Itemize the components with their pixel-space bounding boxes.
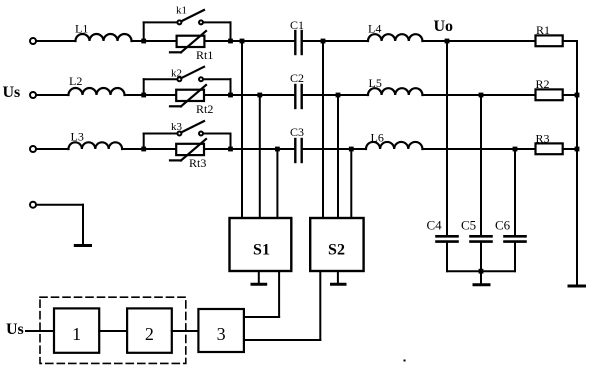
wire C1 to L4 [303,40,368,42]
terminal bar bottom bus [474,283,489,286]
terminal row4 [30,202,36,208]
wire row2 tap down to S2 [337,95,339,218]
wire row2 block to C2 [231,94,295,96]
wire C6 bottom [514,242,516,272]
svg-text:Rt3: Rt3 [189,156,206,170]
resistor R2 [536,77,563,100]
capacitor C1 [290,18,304,54]
node bottom bus [479,269,484,274]
svg-text:R2: R2 [536,77,550,91]
wire k3 branch left vertical [143,134,145,150]
svg-text:C5: C5 [461,218,476,233]
wire L3 to k3 block [122,148,144,150]
inductor L3 [69,130,123,150]
block 2 [127,308,172,352]
wire row3 tap down to C6 [514,149,516,236]
svg-text:Uo: Uo [434,18,454,35]
inductor L2 [69,74,125,95]
wire row1 tap down to S2 [322,41,324,218]
inductor L6 [366,131,422,150]
wire Us to box1 [26,330,54,332]
wire row1 main through Rt1 [144,40,231,42]
wire S1 output down [278,271,280,317]
node row2 block right [228,93,233,98]
wire C5 bottom [480,242,482,272]
node right bus row3 [575,147,580,152]
wire row2 tap down to C5 [480,95,482,236]
wire right bus vertical [576,41,578,286]
svg-text:L3: L3 [71,130,84,144]
wire row3 tap down to S1 [276,149,278,218]
switch k3 [171,121,204,136]
wire row3 block to C3 [231,148,295,150]
svg-text:L4: L4 [368,22,381,36]
wire k3 branch right vertical [230,134,232,150]
wire k1 branch right vertical [230,22,232,41]
node right bus row2 [575,93,580,98]
node row2 block left [141,93,146,98]
wire C3 to L6 [303,148,366,150]
svg-text:L6: L6 [371,131,384,145]
block S2 [310,218,363,271]
terminal bar S2 [332,283,346,286]
node row3 S2 tap [349,147,354,152]
wire L1 to k1 block [132,40,144,42]
node row2 S2 tap [336,93,341,98]
terminal row1 [30,38,36,44]
stray mark [404,360,406,362]
svg-text:C4: C4 [427,218,443,233]
thermistor Rt3 [170,139,206,170]
wire row3 terminal to L3 [36,148,69,150]
wire R3 to right bus [563,148,577,150]
svg-text:C2: C2 [290,71,304,85]
capacitor C5 [461,218,492,242]
wire L5 to R2 [423,94,536,96]
block S1 [230,218,292,271]
wire k2 branch left vertical [143,79,145,95]
svg-text:k1: k1 [176,5,187,17]
svg-text:C3: C3 [290,125,304,139]
node row1 block left [141,39,146,44]
wire capacitor bottom bus [447,270,515,272]
terminal bar S1 [252,283,266,286]
node row3 block left [141,147,146,152]
terminal row3 [30,146,36,152]
svg-text:Us: Us [6,321,24,338]
switch k1 [176,5,204,25]
wire k1 branch left vertical [143,22,145,41]
wire S2 ground stub [337,271,339,284]
svg-text:L5: L5 [369,76,382,90]
svg-text:Us: Us [3,84,21,101]
node row2 C5 tap [479,93,484,98]
block 1 [54,308,99,352]
resistor R1 [536,23,563,46]
node row1 S1 tap [240,39,245,44]
svg-text:L1: L1 [75,22,88,36]
wire row4 vertical [82,205,84,245]
wire row1 tap down to S1 [241,41,243,218]
wire C4 bottom [446,242,448,272]
wire row3 main through Rt3 [144,148,231,150]
wire k3 branch top right [203,133,231,135]
wire k2 branch top left [144,78,178,80]
node row1 S2 tap [321,39,326,44]
svg-text:S2: S2 [328,242,345,259]
svg-text:R3: R3 [536,132,550,146]
svg-text:L2: L2 [69,74,82,88]
wire row1 terminal to L1 [36,40,76,42]
wire S2 output down [319,271,321,340]
svg-text:C1: C1 [290,18,304,32]
svg-text:R1: R1 [536,23,550,37]
block 3 [198,309,244,352]
wire row2 terminal to L2 [36,94,69,96]
wire L2 to k2 block [125,94,144,96]
wire L4 to R1 [423,40,536,42]
node row3 C6 tap [513,147,518,152]
svg-text:k3: k3 [171,121,183,133]
wire L6 to R3 [423,148,536,150]
capacitor C2 [290,71,304,108]
capacitor C3 [290,125,304,162]
wire S1 ground stub [258,271,260,284]
capacitor C6 [495,218,526,242]
wire box2 to box3 [172,330,199,332]
wire C2 to L5 [303,94,368,96]
svg-text:2: 2 [145,324,154,344]
node row1 block right [228,39,233,44]
wire k2 branch top right [203,78,231,80]
svg-text:Rt1: Rt1 [196,48,213,62]
capacitor C4 [427,218,458,242]
wire k2 branch right vertical [230,79,232,95]
wire R2 to right bus [563,94,577,96]
svg-text:C6: C6 [495,218,511,233]
wire row3 tap down to S2 [350,149,352,218]
wire k3 branch top left [144,133,178,135]
thermistor Rt2 [170,85,213,116]
wire box1 to box2 [99,330,127,332]
node row3 S1 tap [275,147,280,152]
node row2 S1 tap [257,93,262,98]
wire row4 horizontal [36,204,83,206]
svg-text:3: 3 [217,324,226,344]
switch k2 [171,67,204,81]
inductor L1 [75,22,132,42]
terminal bar right bus [569,285,585,288]
node Uo [434,18,454,43]
svg-text:1: 1 [72,324,81,344]
wire S2 output to box3 [244,339,320,341]
thermistor Rt1 [170,31,213,62]
node row3 block right [228,147,233,152]
wire Uo node down to C4 [446,41,448,236]
wire row2 main through Rt2 [144,94,231,96]
inductor L4 [368,22,422,42]
terminal row2 [3,84,37,101]
inductor L5 [368,76,422,95]
wire row2 tap down to S1 [259,95,261,218]
dashed enclosure [40,297,186,363]
terminal bar row4 [75,244,90,247]
node Us bottom label [6,321,24,338]
wire R1 to right bus [563,40,577,42]
wire row1 block to C1 [231,40,295,42]
svg-text:Rt2: Rt2 [196,102,213,116]
wire k1 branch top right [203,21,231,23]
wire k1 branch top left [144,21,178,23]
svg-text:S1: S1 [253,242,270,259]
wire S1 output to box3 [244,316,279,318]
wire bottom bus stub [480,271,482,284]
svg-text:k2: k2 [171,68,182,80]
resistor R3 [536,132,563,155]
